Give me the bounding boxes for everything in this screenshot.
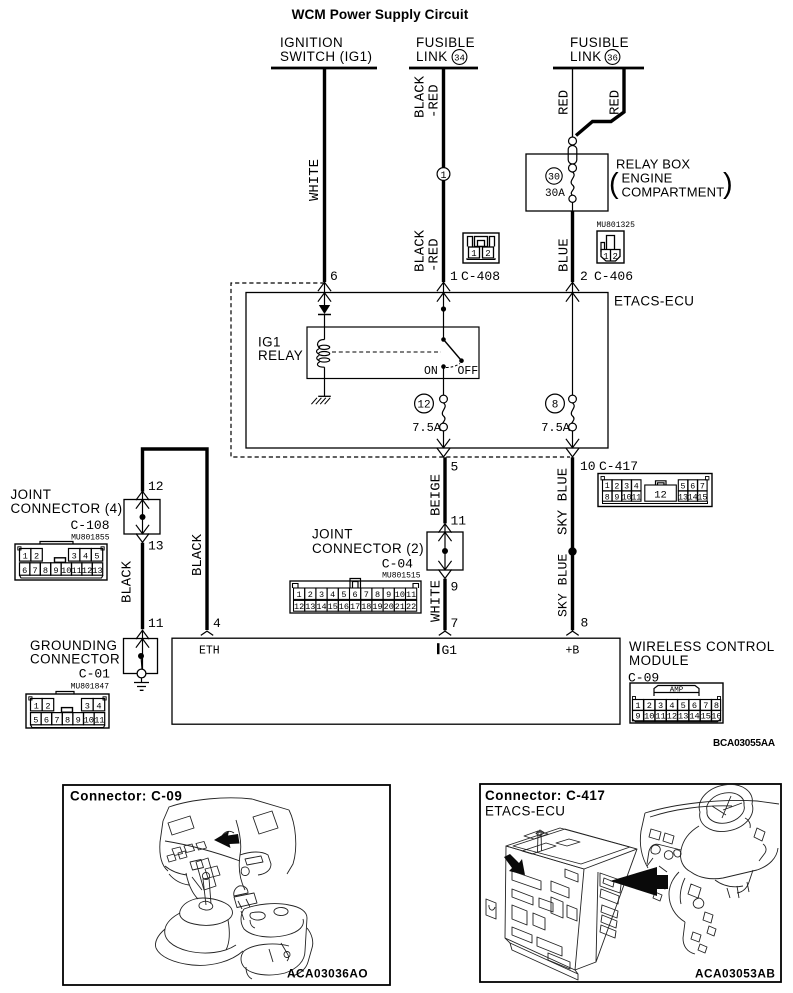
svg-text:MU801847: MU801847 xyxy=(71,683,110,692)
svg-text:18: 18 xyxy=(361,602,371,612)
svg-text:8: 8 xyxy=(375,590,380,600)
svg-text:BLUE: BLUE xyxy=(557,238,573,272)
svg-text:ACA03053AB: ACA03053AB xyxy=(695,967,775,981)
svg-text:SKY BLUE: SKY BLUE xyxy=(556,554,571,617)
svg-text:21: 21 xyxy=(395,602,405,612)
svg-text:12: 12 xyxy=(667,712,677,722)
svg-text:15: 15 xyxy=(328,602,338,612)
svg-text:WHITE: WHITE xyxy=(429,580,445,622)
svg-text:MODULE: MODULE xyxy=(629,653,689,668)
svg-text:11: 11 xyxy=(94,716,104,726)
svg-text:5: 5 xyxy=(94,552,99,562)
svg-text:16: 16 xyxy=(711,712,721,722)
svg-text:7: 7 xyxy=(54,716,59,726)
svg-text:11: 11 xyxy=(655,712,665,722)
svg-text:10: 10 xyxy=(644,712,654,722)
svg-text:7: 7 xyxy=(33,566,38,576)
svg-text:C-04: C-04 xyxy=(382,557,413,572)
svg-text:2: 2 xyxy=(612,252,617,262)
svg-text:C-01: C-01 xyxy=(79,667,110,682)
svg-text:1: 1 xyxy=(450,269,458,284)
svg-text:Connector: C-09: Connector: C-09 xyxy=(70,789,182,804)
svg-text:36: 36 xyxy=(607,53,618,63)
svg-text:ON: ON xyxy=(424,365,438,378)
svg-text:9: 9 xyxy=(53,566,58,576)
svg-text:3: 3 xyxy=(624,483,629,492)
svg-text:Connector: C-417: Connector: C-417 xyxy=(485,788,605,803)
svg-text:2: 2 xyxy=(580,269,588,284)
svg-text:COMPARTMENT: COMPARTMENT xyxy=(622,185,725,200)
svg-text:4: 4 xyxy=(213,616,221,631)
svg-text:1: 1 xyxy=(23,552,28,562)
svg-text:14: 14 xyxy=(689,712,699,722)
svg-text:2: 2 xyxy=(647,701,652,711)
svg-text:2: 2 xyxy=(34,552,39,562)
svg-text:RED: RED xyxy=(608,90,624,115)
svg-text:ENGINE: ENGINE xyxy=(622,171,673,186)
svg-text:MU801325: MU801325 xyxy=(597,221,636,230)
svg-text:7.5A: 7.5A xyxy=(412,421,442,435)
svg-text:WHITE: WHITE xyxy=(307,159,323,201)
svg-text:12: 12 xyxy=(417,400,430,412)
svg-text:LINK: LINK xyxy=(416,49,448,64)
svg-text:3: 3 xyxy=(319,590,324,600)
svg-text:ACA03036AO: ACA03036AO xyxy=(287,967,368,981)
svg-text:-RED: -RED xyxy=(427,84,443,118)
svg-text:4: 4 xyxy=(669,701,674,711)
svg-text:9: 9 xyxy=(451,580,459,595)
svg-text:10: 10 xyxy=(395,590,405,600)
svg-text:11: 11 xyxy=(406,590,416,600)
svg-text:22: 22 xyxy=(406,602,416,612)
svg-text:8: 8 xyxy=(714,701,719,711)
svg-text:WCM Power Supply Circuit: WCM Power Supply Circuit xyxy=(292,7,469,22)
svg-text:2: 2 xyxy=(45,702,50,712)
svg-text:9: 9 xyxy=(614,494,619,503)
svg-text:4: 4 xyxy=(96,702,101,712)
svg-text:10: 10 xyxy=(61,566,71,576)
svg-text:10: 10 xyxy=(622,494,632,503)
svg-text:CONNECTOR (4): CONNECTOR (4) xyxy=(11,501,123,516)
svg-text:1: 1 xyxy=(471,249,476,259)
svg-text:6: 6 xyxy=(690,483,695,492)
svg-text:5: 5 xyxy=(451,460,459,475)
svg-text:CONNECTOR: CONNECTOR xyxy=(30,652,120,667)
svg-text:MU801855: MU801855 xyxy=(71,534,110,543)
svg-text:7.5A: 7.5A xyxy=(541,421,571,435)
svg-text:3: 3 xyxy=(85,702,90,712)
svg-text:12: 12 xyxy=(294,602,304,612)
svg-text:16: 16 xyxy=(339,602,349,612)
svg-text:1: 1 xyxy=(34,702,39,712)
svg-text:15: 15 xyxy=(701,712,711,722)
svg-text:4: 4 xyxy=(83,552,88,562)
svg-text:13: 13 xyxy=(148,539,164,554)
svg-text:BEIGE: BEIGE xyxy=(429,474,445,516)
svg-text:11: 11 xyxy=(148,616,164,631)
svg-text:12: 12 xyxy=(654,490,667,502)
svg-text:30A: 30A xyxy=(545,188,565,200)
svg-text:1: 1 xyxy=(605,482,610,491)
svg-text:7: 7 xyxy=(700,483,705,492)
svg-text:AMP: AMP xyxy=(670,687,684,695)
svg-text:14: 14 xyxy=(316,602,326,612)
svg-text:8: 8 xyxy=(65,716,70,726)
svg-text:11: 11 xyxy=(631,494,641,503)
svg-text:3: 3 xyxy=(72,552,77,562)
svg-text:BLACK: BLACK xyxy=(190,533,206,576)
svg-text:9: 9 xyxy=(76,716,81,726)
svg-text:FUSIBLE: FUSIBLE xyxy=(570,35,629,50)
svg-text:13: 13 xyxy=(678,494,688,503)
svg-text:-RED: -RED xyxy=(427,238,443,272)
svg-text:C-108: C-108 xyxy=(70,518,109,533)
svg-text:BCA03055AA: BCA03055AA xyxy=(713,738,775,749)
svg-text:9: 9 xyxy=(386,590,391,600)
svg-text:): ) xyxy=(723,168,733,200)
svg-text:5: 5 xyxy=(33,716,38,726)
svg-text:6: 6 xyxy=(22,566,27,576)
svg-text:WIRELESS CONTROL: WIRELESS CONTROL xyxy=(629,639,775,654)
svg-text:RELAY: RELAY xyxy=(258,348,303,363)
svg-text:ETH: ETH xyxy=(199,645,220,658)
svg-text:SWITCH (IG1): SWITCH (IG1) xyxy=(280,49,372,64)
svg-text:OFF: OFF xyxy=(458,365,479,378)
svg-text:MU801515: MU801515 xyxy=(382,572,421,581)
svg-text:8: 8 xyxy=(43,566,48,576)
svg-text:6: 6 xyxy=(44,716,49,726)
svg-text:9: 9 xyxy=(635,712,640,722)
svg-text:RELAY BOX: RELAY BOX xyxy=(616,157,690,172)
svg-text:8: 8 xyxy=(581,616,589,631)
svg-text:1: 1 xyxy=(603,252,608,262)
svg-text:+B: +B xyxy=(566,645,580,658)
svg-text:2: 2 xyxy=(308,590,313,600)
svg-text:5: 5 xyxy=(341,590,346,600)
svg-text:1: 1 xyxy=(297,590,302,600)
svg-text:C-417: C-417 xyxy=(599,459,638,474)
svg-text:C-408: C-408 xyxy=(461,269,500,284)
svg-text:ETACS-ECU: ETACS-ECU xyxy=(614,294,694,309)
svg-text:17: 17 xyxy=(350,602,360,612)
svg-text:IGNITION: IGNITION xyxy=(280,35,343,50)
svg-text:BLACK: BLACK xyxy=(120,560,136,603)
svg-text:G1: G1 xyxy=(442,643,458,658)
svg-text:5: 5 xyxy=(681,701,686,711)
svg-text:7: 7 xyxy=(364,590,369,600)
svg-text:8: 8 xyxy=(605,494,610,503)
svg-text:SKY BLUE: SKY BLUE xyxy=(556,468,572,535)
svg-text:5: 5 xyxy=(681,483,686,492)
svg-text:C-406: C-406 xyxy=(594,269,633,284)
svg-text:10: 10 xyxy=(84,716,94,726)
svg-text:7: 7 xyxy=(451,616,459,631)
svg-text:11: 11 xyxy=(72,566,82,576)
svg-text:14: 14 xyxy=(688,494,698,503)
svg-text:2: 2 xyxy=(614,483,619,492)
svg-text:12: 12 xyxy=(148,479,164,494)
svg-text:JOINT: JOINT xyxy=(312,527,353,542)
svg-text:30: 30 xyxy=(548,173,560,184)
svg-text:2: 2 xyxy=(485,249,490,259)
svg-text:34: 34 xyxy=(454,53,465,63)
svg-text:1: 1 xyxy=(635,701,640,711)
svg-text:FUSIBLE: FUSIBLE xyxy=(416,35,475,50)
svg-text:11: 11 xyxy=(451,514,467,529)
svg-text:4: 4 xyxy=(634,483,639,492)
svg-text:13: 13 xyxy=(92,566,102,576)
svg-text:6: 6 xyxy=(353,590,358,600)
svg-text:8: 8 xyxy=(552,400,559,412)
svg-text:(: ( xyxy=(609,168,619,200)
svg-text:19: 19 xyxy=(372,602,382,612)
svg-text:4: 4 xyxy=(330,590,335,600)
svg-text:6: 6 xyxy=(330,269,338,284)
svg-text:12: 12 xyxy=(82,566,92,576)
svg-text:RED: RED xyxy=(557,90,573,115)
svg-text:LINK: LINK xyxy=(570,49,602,64)
svg-text:13: 13 xyxy=(678,712,688,722)
svg-text:3: 3 xyxy=(658,701,663,711)
svg-text:JOINT: JOINT xyxy=(11,487,52,502)
svg-text:ETACS-ECU: ETACS-ECU xyxy=(485,804,565,819)
svg-text:15: 15 xyxy=(697,494,707,503)
svg-text:20: 20 xyxy=(384,602,394,612)
svg-text:7: 7 xyxy=(703,701,708,711)
svg-text:6: 6 xyxy=(692,701,697,711)
svg-text:10: 10 xyxy=(580,459,596,474)
svg-text:13: 13 xyxy=(305,602,315,612)
svg-text:CONNECTOR (2): CONNECTOR (2) xyxy=(312,541,424,556)
